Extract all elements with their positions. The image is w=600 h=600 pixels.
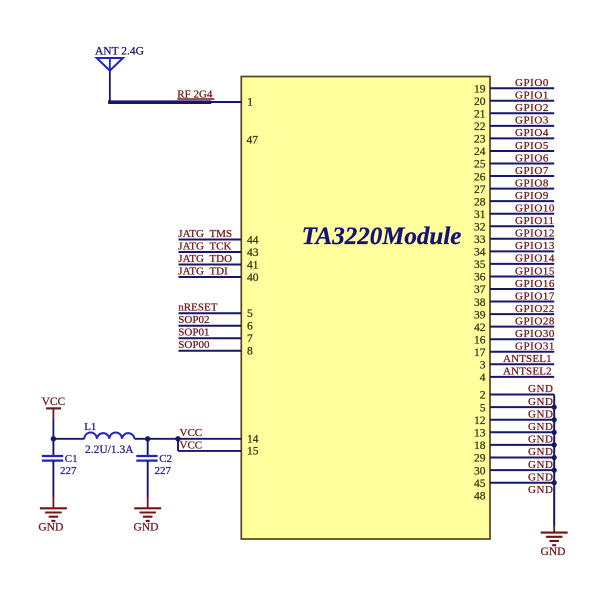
wire: VCC down to rail [52,419,54,439]
svg-text:45: 45 [474,478,486,490]
pin 25 net GPIO6 : wire, pin number, net label [474,152,554,170]
svg-text:2.2U/1.3A: 2.2U/1.3A [85,444,134,456]
ground symbol bottom right [541,525,568,558]
pin 15 net VCC : wire, label, pin number [178,439,259,457]
svg-text:24: 24 [474,146,486,158]
svg-text:14: 14 [247,434,259,446]
svg-text:GPIO15: GPIO15 [515,265,555,277]
svg-text:20: 20 [474,96,486,108]
svg-text:GPIO3: GPIO3 [515,115,549,127]
pin 5 net nRESET : wire, net label, pin number [178,302,253,320]
svg-text:28: 28 [474,196,486,208]
pin 16 net GPIO30 : wire, pin number, net label [474,328,555,346]
svg-text:GPIO1: GPIO1 [515,90,549,102]
pin 24 net GPIO5 : wire, pin number, net label [474,140,554,158]
svg-text:GPIO4: GPIO4 [515,127,549,139]
pin 28 net GPIO9 : wire, pin number, net label [474,190,554,208]
svg-text:GPIO6: GPIO6 [515,152,549,164]
svg-text:15: 15 [247,446,259,458]
svg-text:3: 3 [480,360,486,372]
pin 22 net GPIO3 : wire, pin number, net label [474,115,554,133]
svg-text:GND: GND [38,521,63,533]
pin 18 net GND : wire to ground bus, pin number, net label [474,434,557,453]
svg-text:27: 27 [474,184,486,196]
svg-text:4: 4 [480,372,486,384]
svg-text:40: 40 [247,272,259,284]
svg-text:GPIO22: GPIO22 [515,303,555,315]
pin 39 net GPIO22 : wire, pin number, net label [474,303,555,321]
svg-text:GPIO9: GPIO9 [515,190,549,202]
svg-text:227: 227 [155,465,172,477]
svg-text:1: 1 [247,97,253,109]
svg-text:GPIO2: GPIO2 [515,102,549,114]
inductor L1 2.2U/1.3A [84,421,134,456]
svg-text:GND: GND [528,484,553,496]
svg-text:GPIO16: GPIO16 [515,278,555,290]
svg-text:GPIO10: GPIO10 [515,203,555,215]
ground symbol under C1 [38,496,67,533]
pin 32 net GPIO11 : wire, pin number, net label [474,215,555,233]
svg-text:GPIO11: GPIO11 [515,215,555,227]
pin 35 net GPIO14 : wire, pin number, net label [474,253,555,271]
wire: branch down to pin 15 row [177,439,179,451]
svg-text:227: 227 [60,465,77,477]
svg-text:33: 33 [474,234,486,246]
svg-text:L1: L1 [84,421,96,433]
svg-text:17: 17 [474,347,486,359]
svg-text:GPIO28: GPIO28 [515,315,555,327]
pin 26 net GPIO7 : wire, pin number, net label [474,165,554,183]
svg-text:25: 25 [474,159,486,171]
svg-text:13: 13 [474,428,486,440]
pin 7 net SOP01 : wire, net label, pin number [178,327,253,345]
wire: antenna stem [109,71,111,102]
antenna ANT 2.4G [95,46,144,71]
svg-text:GPIO14: GPIO14 [515,253,555,265]
svg-text:GPIO8: GPIO8 [515,177,549,189]
svg-text:JATG TCK: JATG TCK [178,240,231,252]
pin 12 net GND : wire to ground bus, pin number, net label [474,408,557,427]
svg-text:JATG TMS: JATG TMS [178,228,232,240]
svg-text:C2: C2 [159,453,172,465]
svg-text:43: 43 [247,247,259,259]
ground symbol under C2 [134,496,162,533]
pin 37 net GPIO16 : wire, pin number, net label [474,278,555,296]
svg-text:26: 26 [474,171,486,183]
pin 31 net GPIO10 : wire, pin number, net label [474,203,555,221]
capacitor C1 227 [42,439,78,477]
svg-text:44: 44 [247,234,259,246]
pin 20 net GPIO1 : wire, pin number, net label [474,90,554,108]
svg-text:42: 42 [474,322,486,334]
svg-text:47: 47 [247,134,259,146]
svg-text:ANTSEL1: ANTSEL1 [503,353,552,365]
pin 29 net GND : wire to ground bus, pin number, net label [474,446,557,465]
svg-text:41: 41 [247,259,259,271]
svg-text:18: 18 [474,440,486,452]
svg-text:5: 5 [480,402,486,414]
pin 6 net SOP02 : wire, net label, pin number [178,314,253,332]
svg-text:16: 16 [474,334,486,346]
wire: vertical GND bus on right [553,395,555,527]
svg-text:SOP02: SOP02 [178,314,209,326]
svg-text:34: 34 [474,247,486,259]
svg-text:ANT 2.4G: ANT 2.4G [95,46,144,58]
svg-text:31: 31 [474,209,486,221]
svg-text:GPIO7: GPIO7 [515,165,549,177]
pin 33 net GPIO12 : wire, pin number, net label [474,228,555,246]
svg-text:30: 30 [474,465,486,477]
wire: thick RF trace from antenna to pin 1 [108,100,211,104]
pin 43 net JATG TCK : wire, net label, pin number [178,240,258,258]
svg-text:2: 2 [480,390,486,402]
svg-text:GND: GND [134,521,159,533]
svg-text:21: 21 [474,109,486,121]
svg-text:38: 38 [474,297,486,309]
svg-text:GND: GND [528,459,553,471]
svg-text:GND: GND [528,471,553,483]
pin 30 net GND : wire to ground bus, pin number, net label [474,459,557,478]
svg-text:39: 39 [474,309,486,321]
pin 38 net GPIO17 : wire, pin number, net label [474,290,555,308]
svg-text:JATG TDO: JATG TDO [178,253,232,265]
svg-text:GND: GND [528,446,553,458]
svg-text:VCC: VCC [180,427,203,439]
svg-text:7: 7 [247,333,253,345]
pin 14 net VCC : label and pin number [180,427,259,445]
svg-text:ANTSEL2: ANTSEL2 [503,366,552,378]
pin 1 net RF 2G4 : wire, underline, label, pin number [177,89,253,109]
pin 23 net GPIO4 : wire, pin number, net label [474,127,554,145]
svg-text:19: 19 [474,83,486,95]
svg-text:32: 32 [474,221,486,233]
capacitor C2 227 [136,439,172,477]
pin 21 net GPIO2 : wire, pin number, net label [474,102,554,120]
svg-text:GPIO30: GPIO30 [515,328,555,340]
svg-text:nRESET: nRESET [178,302,217,314]
pin 41 net JATG TDO : wire, net label, pin number [178,253,258,271]
svg-text:36: 36 [474,272,486,284]
pin 4 net ANTSEL2 : wire, pin number, net label [480,366,554,384]
svg-text:22: 22 [474,121,486,133]
svg-text:12: 12 [474,415,486,427]
pin 36 net GPIO15 : wire, pin number, net label [474,265,555,283]
svg-text:GND: GND [528,408,553,420]
pin 42 net GPIO28 : wire, pin number, net label [474,315,555,333]
svg-text:SOP00: SOP00 [178,339,210,351]
pin 44 net JATG TMS : wire, net label, pin number [178,228,258,246]
svg-text:TA3220Module: TA3220Module [302,223,462,250]
pin 8 net SOP00 : wire, net label, pin number [178,339,253,357]
svg-text:5: 5 [247,308,253,320]
svg-text:GPIO31: GPIO31 [515,341,555,353]
node: junction L1/C2/VCC rail [145,436,150,441]
wire: C2 to ground [147,461,149,497]
pin 17 net GPIO31 : wire, pin number, net label [474,341,555,359]
svg-text:GND: GND [528,396,553,408]
pin 19 net GPIO0 : wire, pin number, net label [474,77,554,95]
pin 34 net GPIO13 : wire, pin number, net label [474,240,555,258]
svg-text:6: 6 [247,321,253,333]
svg-text:29: 29 [474,453,486,465]
pin 5 net GND : wire to ground bus, pin number, net label [480,396,557,415]
node: junction VCC/C1/L1 [51,436,56,441]
pin 48 net GND : pin number and net label (no visible wire) [474,484,553,503]
node: junction VCC branch to pin 15 [175,436,180,441]
svg-text:VCC: VCC [180,439,203,451]
pin 27 net GPIO8 : wire, pin number, net label [474,177,554,195]
svg-text:GPIO17: GPIO17 [515,290,555,302]
svg-text:GND: GND [528,421,553,433]
svg-text:8: 8 [247,346,253,358]
svg-text:C1: C1 [65,453,78,465]
pin 2 net GND : wire to ground bus, pin number, net label [480,383,554,402]
svg-text:GPIO5: GPIO5 [515,140,549,152]
svg-text:VCC: VCC [42,396,66,408]
svg-text:48: 48 [474,491,486,503]
wire: C1 to ground [52,461,54,497]
svg-text:GND: GND [528,434,553,446]
svg-text:GPIO0: GPIO0 [515,77,549,89]
pin 45 net GND : wire to ground bus, pin number, net label [474,471,557,490]
pin 3 net ANTSEL1 : wire, pin number, net label [480,353,554,371]
svg-text:23: 23 [474,134,486,146]
wire: rail to L1 [53,438,84,440]
pin 40 net JATG TDI : wire, net label, pin number [178,265,258,283]
svg-text:JATG TDI: JATG TDI [178,265,228,277]
IC U1 TA3220Module chip body [241,77,490,540]
svg-text:GPIO12: GPIO12 [515,228,555,240]
wire: L1 to pin 14 rail [135,438,242,440]
svg-text:35: 35 [474,259,486,271]
svg-text:GND: GND [541,546,566,558]
svg-text:GND: GND [528,383,553,395]
power port VCC (top of filter) [42,396,66,419]
svg-text:37: 37 [474,284,486,296]
pin 13 net GND : wire to ground bus, pin number, net label [474,421,557,440]
svg-text:GPIO13: GPIO13 [515,240,555,252]
svg-text:SOP01: SOP01 [178,327,209,339]
